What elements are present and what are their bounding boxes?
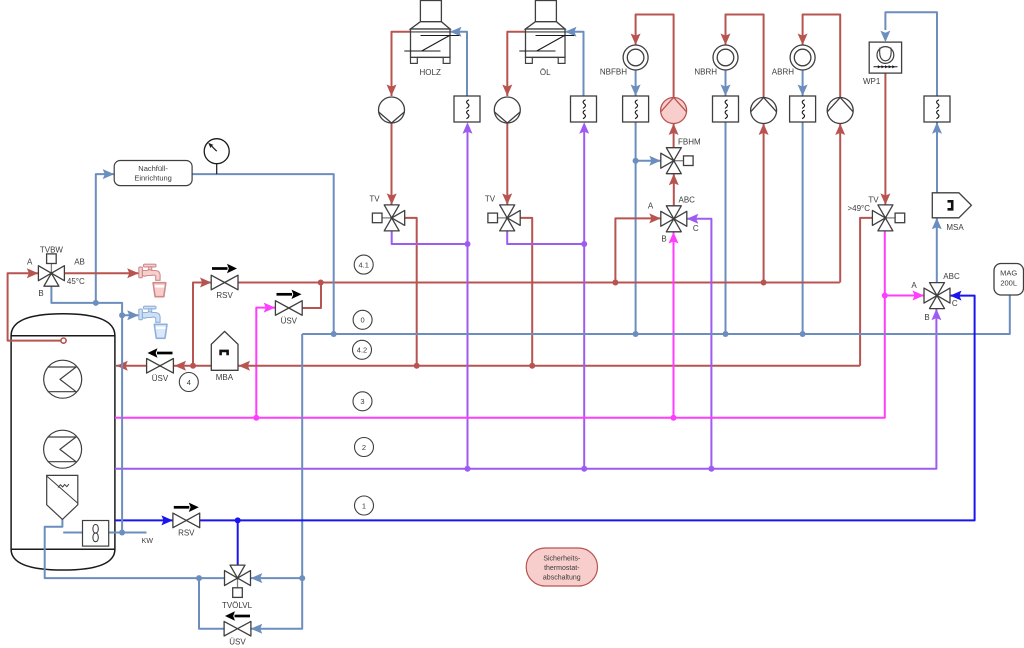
svg-text:KW: KW: [142, 538, 154, 545]
cold water cup: [154, 324, 167, 338]
svg-text:ABC: ABC: [943, 272, 960, 281]
boiler OEL: [519, 1, 574, 78]
tank storage cylinder: [11, 314, 115, 570]
valve TVBW: [27, 246, 85, 299]
hot water cup: [153, 283, 166, 297]
node label 4.1: [354, 255, 373, 274]
svg-text:MBA: MBA: [216, 373, 234, 382]
heat consumer circle NBRH: [694, 45, 738, 77]
wire magenta UESV right feed: [253, 303, 275, 421]
wire blue bus 0 with MAG riser: [302, 295, 1010, 337]
wire red pump P-HOLZ to valve TV (HOLZ): [387, 123, 397, 205]
node label 4.2: [353, 340, 372, 359]
svg-text:RSV: RSV: [216, 291, 233, 300]
heat exchanger coil upper: [44, 360, 82, 398]
svg-text:3: 3: [360, 397, 364, 406]
wire red valve FBHM to valve ABC mid: [669, 174, 679, 206]
svg-text:B: B: [38, 289, 43, 298]
wire red bus 4.2 boiler return: [116, 361, 860, 371]
svg-text:ABRH: ABRH: [772, 68, 794, 77]
wire red supply OEL boiler to pump P-OEL: [502, 32, 525, 96]
svg-text:TVÖLVL: TVÖLVL: [222, 601, 253, 610]
wire purple valve TV OEL to riser: [507, 231, 587, 247]
node label 3: [353, 392, 372, 411]
sensor box NBFBH: [623, 96, 649, 122]
wire blue NBRH circle to sensor and bus 0: [721, 70, 731, 337]
wire blue KW stub: [109, 532, 147, 534]
wire blue ABRH circle to sensor and bus 0: [798, 70, 808, 337]
wire purple valve TV HOLZ to riser: [392, 231, 471, 247]
box Nachfuell-Einrichtung: [114, 161, 192, 186]
boiler HOLZ: [404, 1, 459, 78]
valve RSV bottom: [173, 503, 200, 538]
wire blue tank bottom to TVOELVL: [45, 519, 225, 578]
svg-text:A: A: [648, 202, 654, 211]
wire brightblue junction to TVOELVL top: [237, 520, 239, 565]
wire blue branch to valve FBHM port A: [636, 156, 661, 166]
wire brightblue tank to RSV bottom: [115, 515, 173, 525]
hot water faucet: [139, 264, 160, 280]
pump P-ABRH: [827, 98, 853, 124]
wire blue UESV bottom to tank line: [196, 575, 224, 629]
pump P-FBH pink: [661, 98, 687, 124]
svg-text:thermostat-: thermostat-: [544, 565, 580, 572]
wire blue KW box to tank: [63, 532, 82, 534]
valve FBHM: [661, 138, 701, 174]
svg-text:MSA: MSA: [946, 223, 964, 232]
wire magenta branch to ABC right port A: [882, 291, 924, 301]
node label 1: [355, 496, 374, 515]
wire blue Nachfuell-Einrichtung to bus 0: [192, 174, 334, 334]
svg-text:4.1: 4.1: [358, 260, 368, 269]
svg-text:abschaltung: abschaltung: [543, 575, 581, 582]
svg-text:WP1: WP1: [863, 77, 881, 86]
wire red pump P-FBH to valve FBHM: [669, 124, 679, 148]
wire red valve TV OEL outlet to bus 4.2: [520, 218, 535, 369]
wire blue bus 0 left drop to TVOELVL: [299, 334, 305, 581]
svg-text:A: A: [911, 281, 917, 290]
svg-text:B: B: [924, 313, 929, 322]
wire red RSV feed riser: [190, 278, 212, 369]
valve UESV left: [147, 348, 174, 383]
svg-text:TV: TV: [369, 195, 380, 204]
wire red bracket ABRH circle to pump P-ABRH: [798, 15, 841, 98]
wire red bracket NBFBH circle to pump P-FBH: [631, 15, 674, 98]
wire purple ABC mid port C to bus 2: [687, 214, 715, 472]
svg-text:4: 4: [187, 378, 191, 387]
wire red bracket NBRH circle to pump P-RH: [721, 15, 764, 98]
wire red UESV right outlet to bus 4.1: [302, 283, 321, 309]
wire blue return riser to HOLZ boiler: [450, 27, 467, 96]
expansion vessel MAG 200L: [994, 264, 1024, 296]
wire purple riser OEL sensor to bus 2: [579, 122, 589, 472]
valve ABC right: [911, 272, 960, 322]
wire magenta ABC mid port B to bus 3: [669, 232, 679, 421]
svg-text:ÜSV: ÜSV: [229, 637, 246, 646]
wire blue UESV bottom loop: [251, 578, 302, 634]
cold water faucet: [139, 306, 160, 322]
svg-text:FBHM: FBHM: [678, 138, 701, 147]
pump P-RH: [751, 98, 777, 124]
sensor box ABRH: [790, 96, 816, 122]
valve ABC mid: [648, 196, 699, 244]
node label 0: [353, 310, 372, 329]
svg-text:Sicherheits-: Sicherheits-: [543, 556, 581, 563]
wire brightblue bus 1 to ABC right port C: [200, 291, 975, 524]
svg-text:ÜSV: ÜSV: [281, 317, 298, 326]
svg-text:TV: TV: [868, 196, 879, 205]
sensor box NBRH: [713, 96, 739, 122]
wire red valve TV >49C outlet to bus 4.2: [860, 218, 872, 366]
wire blue return riser to OEL boiler: [565, 27, 584, 96]
wire blue TVBW potable circuit: [51, 286, 125, 535]
svg-text:MAG: MAG: [1000, 269, 1017, 278]
svg-text:2: 2: [362, 443, 366, 452]
heat pump WP1: [863, 42, 902, 86]
node label 4: [179, 373, 198, 392]
wire red pump P-OEL to valve TV (OEL): [502, 123, 512, 205]
svg-text:ÜSV: ÜSV: [152, 374, 169, 383]
wire red WP1 to valve TV >49C: [880, 73, 890, 205]
svg-text:NBFBH: NBFBH: [600, 68, 627, 77]
label KW: [142, 538, 154, 545]
wire red branch bus 4.1 to ABC mid port A: [615, 213, 660, 282]
svg-text:AB: AB: [74, 257, 85, 266]
wire magenta bus 3 to valve TV >49C: [115, 231, 885, 418]
wire purple riser HOLZ sensor to bus 2: [463, 122, 473, 472]
valve TV HOLZ: [369, 195, 404, 231]
svg-text:>49°C: >49°C: [847, 204, 870, 213]
svg-text:B: B: [661, 235, 666, 244]
svg-text:ABC: ABC: [679, 196, 696, 205]
wire purple bus 2 to ABC right port B: [115, 309, 942, 469]
svg-text:200L: 200L: [1000, 279, 1017, 288]
svg-text:45°C: 45°C: [67, 277, 85, 286]
svg-text:Nachfüll-: Nachfüll-: [138, 164, 168, 173]
svg-text:NBRH: NBRH: [694, 68, 717, 77]
wire red valve TV HOLZ outlet to bus 4.2: [405, 218, 420, 369]
svg-text:1: 1: [362, 501, 366, 510]
note Sicherheits-thermostat-abschaltung: [526, 548, 597, 586]
pressure gauge: [204, 139, 229, 174]
sensor box WP1: [924, 96, 950, 122]
valve TV OEL: [485, 195, 520, 231]
pump P-OEL: [494, 97, 520, 123]
wire red tank sensor to valve TVBW port A: [8, 268, 67, 343]
wire red pump P-ABRH to bus 4.1 corner: [835, 124, 845, 283]
signal shape MSA: [932, 193, 971, 232]
wire blue bracket WP1 to sensor: [880, 12, 937, 96]
valve UESV bottom: [224, 611, 251, 646]
heat consumer circle NBFBH: [600, 45, 648, 77]
svg-text:0: 0: [361, 316, 365, 325]
svg-text:HOLZ: HOLZ: [420, 68, 441, 77]
node label 2: [355, 438, 374, 457]
svg-text:RSV: RSV: [178, 529, 195, 538]
svg-text:4.2: 4.2: [357, 346, 367, 355]
svg-text:TV: TV: [485, 195, 496, 204]
svg-text:C: C: [952, 299, 958, 308]
svg-text:Einrichtung: Einrichtung: [134, 174, 172, 183]
wire blue TVOELVL right feed: [251, 573, 302, 583]
svg-text:TVBW: TVBW: [40, 246, 64, 255]
stratifier funnel inside tank: [47, 475, 78, 519]
marker MBA: [211, 331, 238, 382]
wire blue MSA to ABC valve column: [932, 122, 942, 282]
svg-text:ÖL: ÖL: [540, 68, 551, 77]
wire blue riser to Nachfuell-Einrichtung: [96, 169, 114, 303]
svg-text:A: A: [27, 258, 33, 267]
valve TV >49C: [847, 196, 904, 231]
sensor box OEL return: [571, 96, 597, 122]
valve UESV mid: [275, 290, 302, 326]
heat exchanger coil lower: [44, 430, 82, 468]
wire blue NBFBH circle to sensor and bus 0: [631, 70, 641, 337]
wire red supply HOLZ boiler to pump P-HOLZ: [387, 32, 411, 96]
valve RSV top: [211, 264, 238, 300]
wire red TVBW port AB to hot faucet: [65, 268, 139, 278]
wire red pump P-RH to bus 4.1: [759, 124, 769, 286]
sensor box HOLZ return: [454, 96, 480, 122]
pump P-HOLZ: [379, 97, 405, 123]
svg-text:C: C: [693, 224, 699, 233]
heat consumer circle ABRH: [772, 45, 815, 77]
wire red bus 4.1 boiler supply: [239, 280, 840, 286]
valve TVOELVL: [222, 565, 253, 610]
electric element KW box: [83, 521, 109, 547]
wire blue branch to cold faucet: [122, 310, 139, 320]
